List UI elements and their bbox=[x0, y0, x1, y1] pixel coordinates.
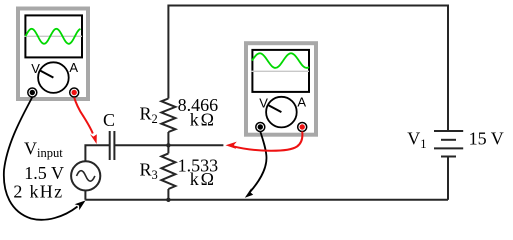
multimeter M1 black jack bbox=[28, 88, 37, 97]
multimeter M2 black jack bbox=[256, 123, 265, 132]
svg-text:1.5 V: 1.5 V bbox=[24, 163, 64, 183]
svg-text:C: C bbox=[103, 110, 115, 130]
wire AC source bottom stub bbox=[84, 190, 86, 199]
wire bottom rail bbox=[85, 199, 448, 201]
wire R2 bottom to node to R3 top bbox=[167, 132, 169, 153]
svg-text:kΩ: kΩ bbox=[190, 110, 216, 130]
M1 black probe arrowhead bbox=[75, 200, 86, 210]
svg-text:kΩ: kΩ bbox=[190, 169, 216, 189]
M1 black probe lead bbox=[4, 97, 78, 220]
svg-text:A: A bbox=[297, 94, 306, 109]
wire AC source top to capacitor bbox=[85, 145, 110, 161]
svg-text:V: V bbox=[259, 95, 268, 110]
multimeter M2 needle bbox=[269, 105, 282, 112]
multimeter M2 waveform bbox=[252, 53, 309, 68]
multimeter M1 red jack bbox=[70, 88, 79, 97]
capacitor C plates bbox=[109, 131, 111, 160]
node junction dot at R2/R3/capacitor bbox=[166, 143, 170, 147]
AC source sine symbol bbox=[77, 171, 95, 182]
multimeter M1 dial bbox=[38, 62, 69, 93]
M2 black probe arrowhead bbox=[245, 188, 253, 198]
multimeter M1 screen centerline bbox=[24, 35, 82, 37]
svg-text:15 V: 15 V bbox=[469, 129, 504, 149]
multimeter M2 red jack bbox=[298, 123, 307, 132]
battery V1 short plate 1 bbox=[441, 139, 456, 141]
battery V1 long plate 1 bbox=[434, 130, 463, 132]
wire top loop: R2 top to battery top bbox=[168, 6, 448, 131]
multimeter M2 screen bbox=[252, 50, 309, 92]
svg-text:A: A bbox=[69, 60, 78, 75]
multimeter M1 waveform bbox=[26, 29, 81, 44]
multimeter M1 screen bbox=[25, 15, 82, 57]
M2 red probe arrowhead bbox=[226, 142, 237, 149]
multimeter M2 screen centerline bbox=[251, 70, 309, 72]
battery V1 long plate 2 bbox=[434, 147, 463, 149]
multimeter M1 needle bbox=[41, 71, 54, 78]
M2 black probe lead bbox=[250, 132, 267, 193]
svg-text:2 kHz: 2 kHz bbox=[13, 181, 63, 201]
M1 red probe arrowhead bbox=[90, 134, 97, 144]
multimeter M1 body bbox=[18, 9, 88, 100]
wire R3 bottom stub bbox=[167, 189, 169, 200]
node junction dot at R3 bottom on bottom rail bbox=[166, 198, 170, 202]
wire battery bottom stub bbox=[447, 157, 449, 200]
resistor R2 bbox=[161, 99, 175, 133]
multimeter M2 dial bbox=[266, 97, 297, 128]
wire capacitor to node and right stub bbox=[114, 144, 223, 146]
AC source V_input circle bbox=[71, 161, 100, 190]
M2 red probe lead bbox=[233, 132, 302, 151]
svg-text:V: V bbox=[31, 61, 40, 76]
multimeter M2 body bbox=[246, 43, 316, 135]
resistor R3 bbox=[161, 153, 175, 189]
battery V1 short plate 2 bbox=[441, 156, 456, 158]
M1 red probe lead bbox=[74, 98, 93, 134]
